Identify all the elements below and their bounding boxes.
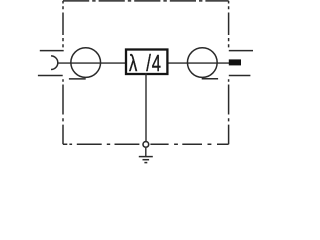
node: stub-to-enclosure terminal [143,142,149,148]
value label λ/4 [129,51,161,76]
wire: stub lead to shield [145,73,147,141]
connector X1 input socket (female arc) [51,56,58,70]
svg-text:4: 4 [152,51,161,76]
svg-text:λ: λ [129,51,137,76]
wire: right bushing shield stub [202,78,218,80]
enclosure (dash-dot shield case) top border [63,0,229,2]
wire: output shield top [229,50,253,52]
wire: output shield bottom [229,75,251,77]
ground [139,157,153,163]
enclosure bottom border [63,143,229,145]
connector X2 output plug (male pin) [229,59,241,65]
enclosure right border [228,1,230,144]
enclosure left border [62,1,64,144]
wire: left bushing shield stub [69,78,86,80]
coax feed-through bushing (right circle) [187,48,217,78]
coax feed-through bushing (left circle) [71,48,101,78]
svg-text:/: / [146,51,151,76]
wire: main through line [58,62,230,64]
wire: input shield top [40,50,64,52]
wire: input shield bottom [38,75,63,77]
wire: ground lead [145,148,147,157]
quarter-wave stub box U1 [126,50,167,75]
